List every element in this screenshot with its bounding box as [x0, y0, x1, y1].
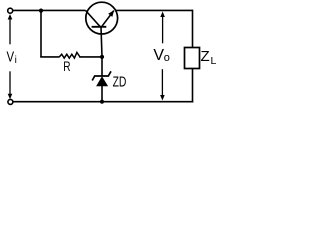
wire: resistor to base node — [79, 56, 102, 58]
transistor Q1 emitter arrowhead — [108, 10, 114, 17]
transistor Q1 collector lead — [86, 10, 101, 26]
transistor Q1 circle — [86, 2, 118, 34]
wire: load to bottom rail — [192, 69, 194, 103]
terminal: input positive — [8, 8, 13, 13]
wire: right drop to load — [192, 10, 194, 48]
transistor Q1 base lead — [101, 27, 102, 57]
junction: base node — [100, 55, 104, 59]
svg-text:V: V — [7, 49, 15, 65]
wire: zener anode to bottom rail — [101, 86, 103, 102]
transistor Q1 emitter lead — [102, 11, 114, 27]
svg-text:Z: Z — [201, 48, 210, 65]
Vi measurement arrow lower — [9, 71, 11, 97]
zener diode ZD cathode bar with bent ticks — [92, 71, 111, 80]
load Z_L box — [185, 48, 200, 69]
wire: bottom rail — [13, 101, 193, 103]
svg-text:ZD: ZD — [113, 74, 127, 91]
wire: to resistor — [40, 56, 59, 58]
junction: top rail to R — [39, 9, 43, 13]
transistor Q1 base bar — [92, 26, 107, 28]
junction: zener to bottom rail — [100, 100, 104, 104]
wire: top rail right — [116, 9, 193, 11]
Vi measurement arrow upper — [9, 16, 11, 44]
Vo measurement arrow lower — [161, 69, 163, 98]
wire: drop from top junction — [40, 10, 42, 57]
terminal: input negative — [8, 99, 13, 104]
zener diode ZD anode triangle — [96, 76, 108, 86]
svg-text:i: i — [15, 55, 17, 66]
Vo measurement arrow upper — [162, 14, 164, 44]
resistor R — [59, 52, 80, 58]
wire: top rail left — [13, 9, 86, 11]
svg-text:V: V — [153, 47, 164, 64]
svg-text:o: o — [164, 52, 170, 64]
svg-text:R: R — [63, 58, 70, 74]
wire: base node to zener cathode — [101, 57, 103, 76]
svg-text:L: L — [211, 55, 217, 67]
